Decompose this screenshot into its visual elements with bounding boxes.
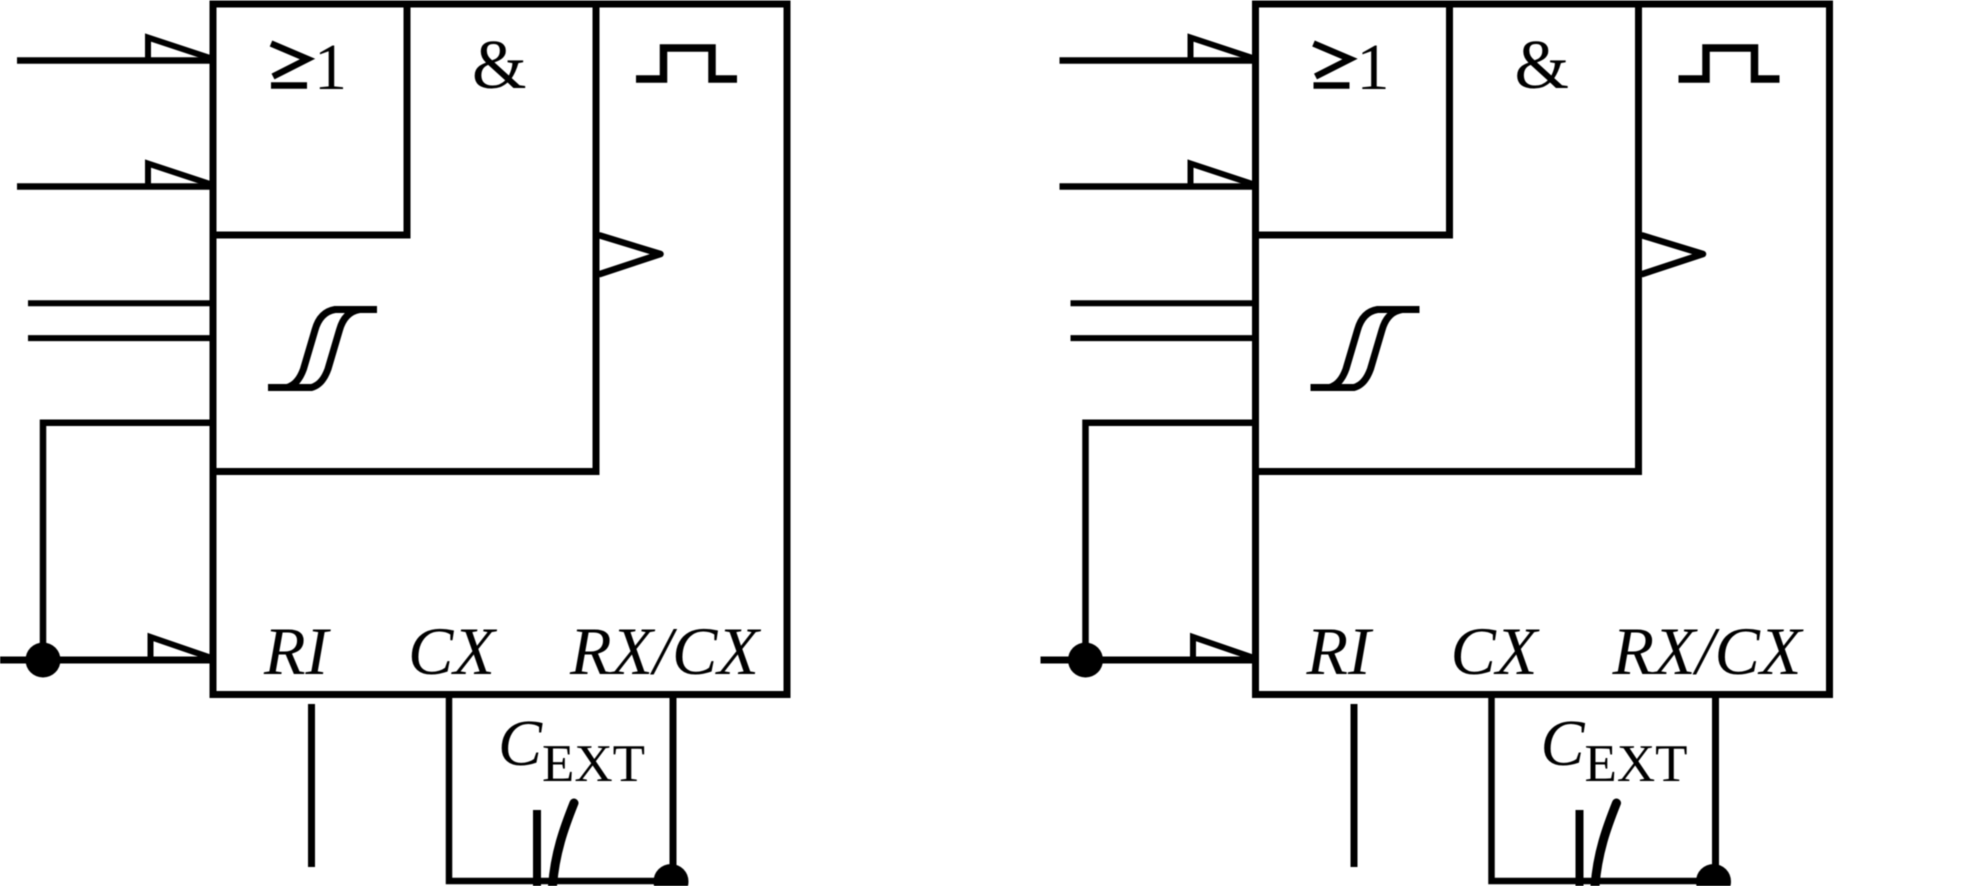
value label C_EXT of U2 (1541, 707, 1688, 793)
svg-text:CX: CX (408, 613, 497, 689)
pin RI stub of U1 (308, 704, 315, 867)
dynamic-input triangle on retrigger input of U1 (151, 637, 214, 660)
hysteresis symbol of U2 (1311, 310, 1420, 388)
edge-trigger arrow of U1 (600, 236, 661, 275)
capacitor C_EXT of U2: curved plate (1595, 803, 1617, 886)
svg-text:RX/CX: RX/CX (1612, 613, 1804, 689)
monostable U2 outline (1256, 4, 1830, 695)
wire: input B2 of U2 (1071, 335, 1256, 341)
junction node of U2 retrigger wire (1068, 643, 1103, 678)
wire: RX/CX pin of U1 (670, 694, 677, 881)
svg-text:C: C (498, 707, 543, 780)
label ≥1 (U2 OR section) (1314, 31, 1390, 104)
dynamic-input triangle on A1 of U1 (148, 38, 213, 61)
capacitor C_EXT of U2: straight plate (1576, 810, 1584, 886)
svg-text:RI: RI (1306, 613, 1375, 689)
core-section divider of U2 (1256, 4, 1639, 472)
svg-text:1: 1 (1357, 31, 1390, 104)
svg-text:RX/CX: RX/CX (569, 613, 761, 689)
dynamic-input triangle on A2 of U2 (1191, 164, 1256, 187)
wire: input A2 of U1 (17, 183, 213, 190)
wire: input B1 of U2 (1071, 300, 1256, 306)
hysteresis symbol of U1 (268, 310, 377, 388)
wire: input B2 of U1 (28, 335, 213, 341)
svg-text:&: & (472, 27, 526, 104)
pulse symbol of U2 (1679, 48, 1780, 79)
svg-text:1: 1 (314, 31, 347, 104)
wire: RX/CX pin of U2 (1712, 694, 1719, 881)
wire: input A1 of U1 (17, 57, 213, 64)
wire: input A2 of U2 (1060, 183, 1256, 190)
wire: retrigger input of U1 (0, 657, 213, 664)
svg-text:&: & (1515, 27, 1569, 104)
wire: feedback from U1 pin to retrigger node (43, 423, 213, 660)
svg-text:EXT: EXT (542, 735, 645, 793)
edge-trigger arrow of U2 (1643, 236, 1704, 275)
junction node at RX/CX of U2 (1696, 864, 1731, 886)
dynamic-input triangle on retrigger input of U2 (1193, 637, 1256, 660)
wire: CX to external capacitor of U1 (449, 694, 671, 881)
value label C_EXT of U1 (498, 707, 645, 793)
svg-text:C: C (1541, 707, 1586, 780)
OR-section divider of U1 (213, 4, 407, 235)
svg-text:EXT: EXT (1585, 735, 1688, 793)
label ≥1 (U1 OR section) (271, 31, 347, 104)
wire: feedback from U2 pin to retrigger node (1086, 423, 1256, 660)
OR-section divider of U2 (1256, 4, 1450, 235)
monostable U1 outline (213, 4, 787, 695)
pin RI stub of U2 (1351, 704, 1358, 867)
capacitor C_EXT of U1: curved plate (553, 803, 575, 886)
dynamic-input triangle on A2 of U1 (148, 164, 213, 187)
junction node of U1 retrigger wire (26, 643, 61, 678)
wire: CX to external capacitor of U2 (1492, 694, 1714, 881)
junction node at RX/CX of U1 (654, 864, 689, 886)
wire: input B1 of U1 (28, 300, 213, 306)
svg-text:CX: CX (1451, 613, 1540, 689)
pulse symbol of U1 (636, 48, 737, 79)
capacitor C_EXT of U1: straight plate (533, 810, 541, 886)
dynamic-input triangle on A1 of U2 (1191, 38, 1256, 61)
core-section divider of U1 (213, 4, 596, 472)
wire: retrigger input of U2 (1041, 657, 1256, 664)
svg-text:RI: RI (263, 613, 332, 689)
wire: input A1 of U2 (1060, 57, 1256, 64)
